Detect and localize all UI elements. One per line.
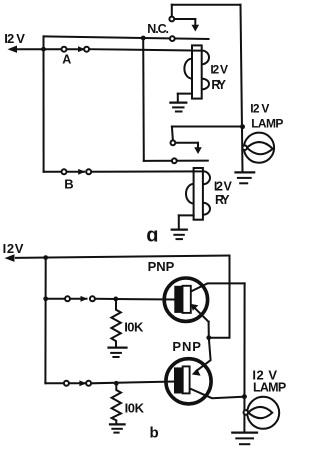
svg-text:LAMP: LAMP — [253, 381, 286, 395]
svg-text:N.C.: N.C. — [147, 22, 169, 36]
svg-text:PNP: PNP — [148, 259, 175, 274]
svg-text:RY: RY — [211, 78, 226, 92]
svg-text:A: A — [62, 52, 71, 66]
svg-text:I2V: I2V — [3, 241, 24, 256]
svg-text:I2 V: I2 V — [4, 31, 25, 46]
svg-text:I2 V: I2 V — [214, 180, 233, 194]
svg-text:ɑ: ɑ — [146, 224, 158, 246]
svg-text:I2 V: I2 V — [210, 62, 228, 76]
svg-text:B: B — [64, 176, 73, 191]
svg-text:PNP: PNP — [172, 339, 201, 354]
svg-text:I0K: I0K — [125, 400, 145, 415]
svg-text:LAMP: LAMP — [251, 117, 283, 131]
svg-text:I0K: I0K — [124, 320, 144, 335]
svg-text:b: b — [150, 425, 159, 442]
svg-text:I2 V: I2 V — [250, 102, 269, 116]
svg-text:RY: RY — [215, 193, 230, 207]
